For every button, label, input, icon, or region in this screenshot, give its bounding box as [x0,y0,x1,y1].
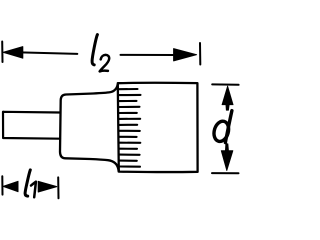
dimension d: down arrow [221,144,233,171]
dimension l1: left arrow [3,181,18,191]
dimension d: bottom tick [212,172,239,174]
hex bit shaft [3,112,60,139]
knurled socket body outline [118,83,198,172]
label d: bowl [212,119,231,143]
dimension l2: right tick [199,43,201,65]
dimension l2: left arrow [3,47,23,59]
dimension l2: right arrow [174,49,197,61]
dimension l1: left tick [1,176,3,194]
dimension l2: left tick [1,42,3,63]
dimension d: top tick [212,83,238,85]
dimension l2: line left segment [20,52,77,54]
label l1: letter l [25,170,30,196]
dimension l2: line right segment [121,54,176,56]
label l2: letter l [92,35,97,65]
label l2: subscript 2 [100,55,110,72]
dimension d: up arrow [222,86,233,110]
label d: stem [225,111,232,143]
knurling serration lines [119,89,140,167]
label l1: subscript 1 [31,182,36,198]
dimension l1: right tick [57,177,59,198]
dimension l1: right arrow [38,181,57,192]
adapter body outline [60,84,119,171]
